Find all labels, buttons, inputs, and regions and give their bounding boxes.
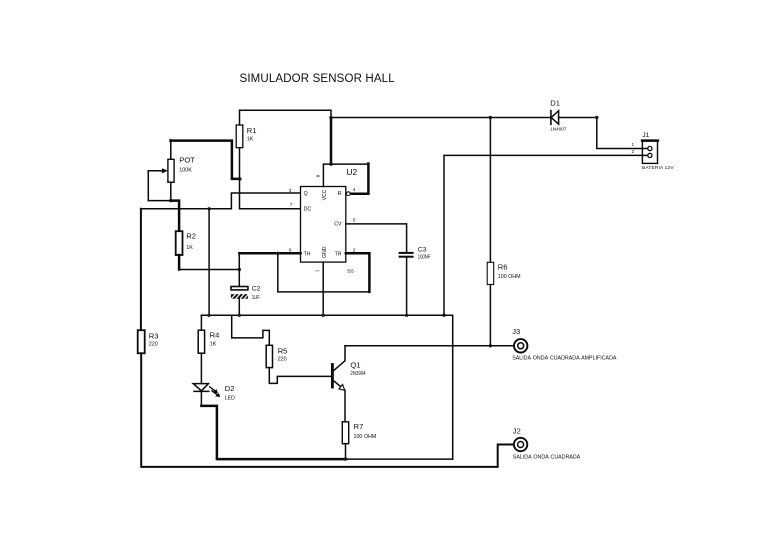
resistor R4 — [198, 330, 204, 353]
wire top rail to D1 cathode — [331, 117, 551, 119]
svg-text:SALIDA ONDA CUADRADA AMPLIFICA: SALIDA ONDA CUADRADA AMPLIFICADA — [512, 356, 617, 362]
svg-text:SIMULADOR SENSOR HALL: SIMULADOR SENSOR HALL — [240, 73, 396, 85]
wire R1 top lead to top rail — [240, 110, 332, 125]
Q1 emitter arrowhead — [339, 385, 345, 391]
svg-text:GND: GND — [322, 246, 328, 258]
svg-text:C2: C2 — [252, 286, 261, 293]
wire lower bus thin part — [346, 458, 453, 460]
resistor R6 — [487, 262, 494, 284]
wire J1 pin 1 — [597, 118, 648, 149]
wire R2 bottom (thick) — [178, 255, 181, 270]
svg-text:1K: 1K — [247, 137, 254, 143]
svg-text:J1: J1 — [642, 132, 649, 139]
wire R4 top lead — [200, 315, 202, 330]
node D1/J1 corner (junction dot) — [595, 116, 598, 119]
LED D2 — [193, 384, 208, 391]
svg-text:J2: J2 — [513, 427, 521, 436]
svg-text:1: 1 — [314, 269, 320, 272]
svg-text:100 OHM: 100 OHM — [354, 434, 377, 440]
svg-text:220: 220 — [149, 342, 158, 348]
node mid bus / C3 (junction dot) — [405, 314, 408, 317]
Q1 collector — [334, 346, 345, 371]
pin 4 inversion bubble — [346, 192, 350, 196]
wire D1 anode to J1 corner — [559, 117, 597, 119]
wire left rail (R3 column) — [140, 209, 142, 330]
svg-text:100 OHM: 100 OHM — [498, 274, 521, 280]
node top rail / VCC drop (junction dot) — [329, 116, 332, 119]
wire POT bottom to R2 top (thick) — [171, 201, 179, 232]
svg-text:R4: R4 — [210, 330, 220, 339]
wire R1 bottom to pin 7 (DC) — [240, 148, 301, 209]
svg-text:7: 7 — [290, 202, 293, 208]
resistor R7 — [342, 422, 348, 444]
node mid bus / C2 (junction dot) — [238, 314, 241, 317]
svg-text:555: 555 — [347, 268, 354, 273]
node mid bus / Q branch (junction dot) — [207, 314, 210, 317]
wire POT top to R1 bottom node (thick) — [171, 141, 241, 179]
node J3 / R6 (junction dot) — [489, 344, 492, 347]
node Q line (junction dot) — [207, 207, 210, 210]
wire R2 bottom to C2 node — [179, 269, 239, 271]
wire VCC node to pin 4 corner — [331, 163, 368, 165]
svg-text:R2: R2 — [186, 232, 196, 241]
svg-text:1UF: 1UF — [252, 295, 260, 301]
svg-text:DC: DC — [304, 206, 312, 212]
wire Q1 collector to J3 — [345, 345, 513, 347]
svg-text:VCC: VCC — [322, 189, 328, 200]
wire GND lead — [322, 262, 324, 315]
svg-text:Q: Q — [304, 191, 308, 197]
Q1 emitter — [334, 381, 344, 389]
wire node Q down to mid bus — [208, 209, 210, 315]
capacitor C3 — [400, 252, 413, 254]
svg-text:3: 3 — [289, 188, 292, 194]
wire POT bottom lead — [170, 182, 172, 200]
wire R5 bottom to Q1 base — [269, 368, 331, 384]
connector J2 — [514, 438, 527, 451]
svg-text:D2: D2 — [225, 384, 235, 393]
resistor R3 — [138, 330, 145, 353]
svg-text:POT: POT — [179, 155, 195, 164]
wire output Q: left rail top to pin 3 — [141, 193, 301, 209]
svg-text:5: 5 — [353, 217, 356, 223]
svg-text:8: 8 — [315, 174, 321, 177]
connector J3 — [514, 339, 527, 352]
svg-text:4: 4 — [353, 187, 356, 193]
wire J1 pin 2 to mid bus — [444, 155, 647, 315]
D2 emission arrows — [210, 387, 217, 392]
svg-text:C3: C3 — [418, 246, 427, 253]
svg-text:SALIDA ONDA CUADRADA: SALIDA ONDA CUADRADA — [513, 454, 581, 460]
wire pin 8 riser — [323, 164, 331, 186]
node mid bus / J1 pin2 (junction dot) — [442, 314, 445, 317]
wire POT wiper loop to bottom terminal — [148, 171, 171, 201]
node R7 bottom (junction dot) — [344, 457, 347, 460]
svg-text:1K: 1K — [210, 342, 217, 348]
svg-text:2N3904: 2N3904 — [350, 371, 365, 377]
node POT bottom (junction dot) — [169, 199, 172, 202]
wire D2 cathode to lower bus (thick) — [201, 406, 346, 459]
svg-text:100NF: 100NF — [418, 254, 431, 260]
transistor Q1 2N3904 — [331, 365, 334, 388]
svg-text:R3: R3 — [149, 332, 159, 341]
wire R6 top lead — [489, 118, 491, 263]
IC U2 555 timer — [301, 187, 346, 263]
svg-text:BATERIA 12V: BATERIA 12V — [642, 165, 674, 171]
svg-text:R6: R6 — [498, 262, 508, 271]
connector J1 — [642, 140, 657, 163]
svg-text:R: R — [338, 191, 342, 197]
svg-text:R1: R1 — [247, 126, 257, 135]
wire CV (pin 5) to C3 — [346, 224, 407, 252]
node VCC (junction dot) — [329, 162, 332, 165]
wire R4 bottom to D2 — [200, 353, 202, 383]
wire C3 bottom lead — [406, 258, 408, 316]
wire staircase from mid bus to R5 — [232, 315, 270, 345]
wire TR loop thick part — [346, 253, 370, 292]
wire R6 bottom lead — [489, 285, 491, 346]
node TH (junction dot) — [276, 252, 279, 255]
svg-text:Q1: Q1 — [350, 360, 360, 369]
svg-text:R5: R5 — [278, 346, 288, 355]
svg-text:CV: CV — [334, 221, 342, 227]
node R2/C2 (junction dot) — [238, 268, 241, 271]
svg-text:U2: U2 — [346, 167, 357, 177]
wire VCC drop from rail (thick) — [330, 118, 333, 165]
wire Q1 emitter to R7 — [344, 390, 346, 422]
capacitor C2 (polarized) — [231, 287, 248, 290]
POT wiper arrow — [148, 170, 164, 172]
wire C2 bottom lead — [238, 298, 240, 315]
resistor R5 — [266, 345, 272, 367]
wire pin 4 (R) with reset jog (thick) — [350, 164, 368, 194]
svg-text:R7: R7 — [354, 422, 364, 431]
svg-text:J3: J3 — [512, 327, 520, 336]
svg-text:100K: 100K — [179, 168, 192, 174]
potentiometer POT — [170, 141, 172, 160]
node R1 bottom (junction dot) — [238, 177, 241, 180]
node mid bus / GND (junction dot) — [322, 314, 325, 317]
wire R3 bottom / bottom rail to J2 — [141, 353, 513, 467]
svg-text:LED: LED — [225, 395, 235, 401]
svg-text:1K: 1K — [186, 245, 193, 251]
wire R7 bottom lead — [345, 444, 347, 459]
resistor R2 — [176, 231, 183, 255]
wire TR loop to TH node — [278, 253, 370, 292]
diode D1 1N4007 — [550, 111, 552, 125]
wire mid ground bus — [201, 315, 452, 459]
node POT top (junction dot) — [169, 139, 172, 142]
node top rail / R6 (junction dot) — [489, 116, 492, 119]
wire C2 top lead — [238, 253, 240, 286]
wire TH line (thick) — [239, 252, 300, 255]
wire D2 cathode lead — [200, 391, 202, 406]
svg-text:TR: TR — [335, 251, 342, 257]
resistor R1 — [236, 125, 243, 148]
svg-text:220: 220 — [278, 357, 287, 363]
svg-text:2: 2 — [631, 149, 634, 154]
svg-text:D1: D1 — [550, 99, 560, 108]
svg-text:1: 1 — [631, 142, 634, 147]
svg-text:TH: TH — [304, 251, 311, 257]
svg-text:1N4007: 1N4007 — [550, 126, 567, 131]
